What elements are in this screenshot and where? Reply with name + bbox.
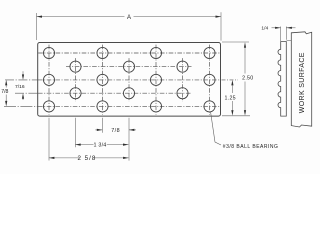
- svg-text:1 3/4: 1 3/4: [94, 143, 107, 149]
- row 1 centerline: [38, 52, 220, 54]
- svg-text:A: A: [127, 15, 131, 21]
- ball bearing hole row4 col1: [70, 88, 81, 99]
- svg-text:1/4: 1/4: [261, 25, 268, 31]
- vertical centerline col3: [102, 45, 104, 115]
- ball bearing hole row3 col4: [204, 74, 215, 85]
- dimension 2 5/8: [49, 157, 80, 159]
- svg-text:#3/8 BALL BEARING: #3/8 BALL BEARING: [223, 144, 279, 150]
- vertical centerline col7: [209, 45, 211, 115]
- bottom extension line col3: [102, 118, 104, 133]
- svg-text:2.50: 2.50: [242, 76, 253, 82]
- vertical centerline col6: [182, 58, 184, 102]
- ball bearing hole row3 col3: [150, 74, 161, 85]
- row 4 centerline: [38, 92, 192, 94]
- ball bearing hole row4 col2: [123, 88, 134, 99]
- ball bearing hole row3 col2: [97, 74, 108, 85]
- svg-text:7/8: 7/8: [111, 128, 120, 134]
- vertical centerline col4: [128, 58, 130, 102]
- ball bearing hole row1 col2: [97, 47, 108, 58]
- ball bearing hole row3 col1: [43, 74, 54, 85]
- bottom extension line col4: [128, 118, 130, 161]
- dimension 1 3/4: [75, 144, 93, 146]
- work surface panel: [291, 32, 311, 127]
- row 4 centerline left extension: [15, 92, 38, 94]
- right top extension line: [222, 41, 249, 43]
- dimension 2.50: [244, 48, 246, 74]
- svg-text:7/8: 7/8: [1, 89, 8, 95]
- svg-text:WORK SURFACE: WORK SURFACE: [299, 52, 306, 113]
- svg-text:1.25: 1.25: [225, 95, 236, 101]
- ball bearing hole row1 col1: [43, 47, 54, 58]
- vertical centerline col1: [49, 45, 210, 115]
- plate outline: [38, 43, 221, 117]
- vertical centerline col2: [75, 58, 77, 102]
- dimension 1.25: [231, 86, 233, 94]
- bottom extension line col2: [75, 118, 77, 148]
- ball bearing hole row4 col3: [177, 88, 188, 99]
- dimension A line: [37, 16, 125, 18]
- ball bearing hole row2 col3: [177, 61, 188, 72]
- ball bearing hole row5 col2: [97, 101, 108, 112]
- ball bearing hole row5 col1: [43, 101, 54, 112]
- row 3 centerline right extension: [222, 79, 239, 81]
- ball bearing hole row5 col3: [150, 101, 161, 112]
- dimension A extension lines: [36, 13, 38, 40]
- ball bearing hole row2 col1: [70, 61, 81, 72]
- row 5 centerline: [38, 105, 220, 107]
- dimension 1/4: [280, 27, 282, 42]
- ball bearing hole row2 col2: [123, 61, 134, 72]
- ball bearing hole row1 col4: [204, 47, 215, 58]
- row 5 centerline left extension: [4, 105, 38, 107]
- svg-text:7/16: 7/16: [15, 84, 25, 90]
- bottom extension line col1: [48, 118, 50, 161]
- right bottom extension line: [222, 115, 250, 117]
- dimension 7/8 left: [5, 80, 7, 86]
- svg-text:2 5/8: 2 5/8: [78, 155, 97, 162]
- vertical centerline col5: [155, 45, 157, 115]
- row 3 centerline: [38, 79, 220, 81]
- ball bearing hole row1 col3: [150, 47, 161, 58]
- connector line strip to panel: [287, 39, 292, 41]
- side view plate edge strip: [278, 42, 286, 117]
- row 2 centerline: [66, 66, 192, 68]
- leader line ball bearing: [211, 112, 222, 146]
- row 3 centerline left extension: [5, 79, 38, 81]
- dimension 7/8 bottom: [95, 129, 102, 131]
- ball bearing hole row5 col4: [204, 101, 215, 112]
- dimension 7/16 left: [22, 74, 24, 80]
